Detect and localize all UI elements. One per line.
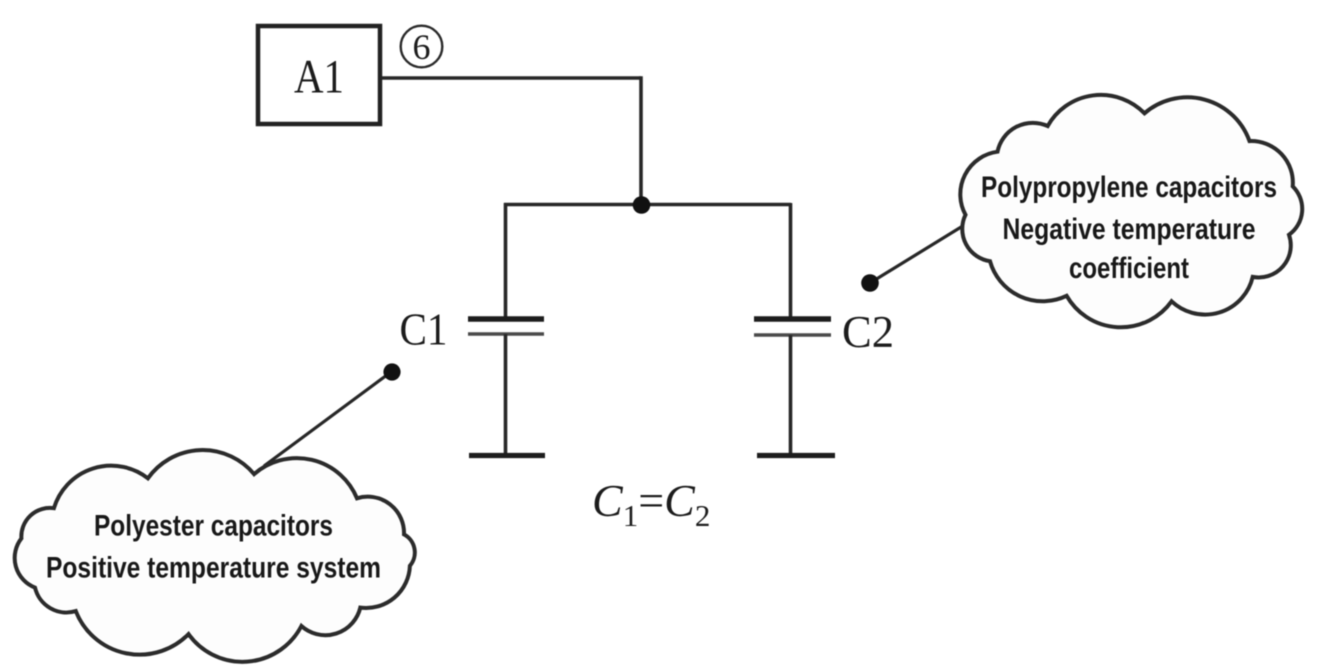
capacitor C2 top plate xyxy=(754,316,831,322)
wire top bus C1 to C2 xyxy=(504,203,791,207)
terminal bar under C2 xyxy=(757,453,835,458)
capacitor C1 top plate xyxy=(468,316,544,322)
terminal bar under C1 xyxy=(469,453,545,458)
wire node to C1 top plate xyxy=(504,203,508,318)
wire C2 bottom plate to terminal xyxy=(789,335,793,456)
callout cloud left xyxy=(15,450,415,662)
svg-text:C2: C2 xyxy=(842,307,894,357)
wire node to C2 top plate xyxy=(789,203,793,318)
svg-text:C1: C1 xyxy=(400,305,448,355)
pin 6 circle marker xyxy=(401,26,443,68)
callout cloud right xyxy=(960,95,1302,327)
svg-text:A1: A1 xyxy=(294,51,344,104)
callout dot right xyxy=(861,274,879,292)
callout leader line left (C1) xyxy=(264,372,391,466)
svg-text:Polyester capacitors: Polyester capacitors xyxy=(94,510,333,543)
capacitor C2 bottom plate xyxy=(754,333,831,336)
wire C1 bottom plate to terminal xyxy=(504,334,508,456)
junction node dot xyxy=(633,196,651,214)
svg-text:Polypropylene capacitors: Polypropylene capacitors xyxy=(981,171,1277,204)
callout leader line right (C2) xyxy=(870,224,966,283)
wire corner down to node xyxy=(639,76,643,205)
module box A1 xyxy=(258,26,380,124)
svg-text:6: 6 xyxy=(413,27,431,67)
svg-text:Positive temperature system: Positive temperature system xyxy=(46,552,381,585)
svg-text:coefficient: coefficient xyxy=(1069,252,1189,285)
capacitor C1 bottom plate xyxy=(468,332,544,335)
svg-text:C1=C2: C1=C2 xyxy=(592,475,710,533)
svg-text:Negative temperature: Negative temperature xyxy=(1003,213,1256,246)
wire A1 to corner xyxy=(382,76,641,80)
callout dot left xyxy=(383,363,400,380)
